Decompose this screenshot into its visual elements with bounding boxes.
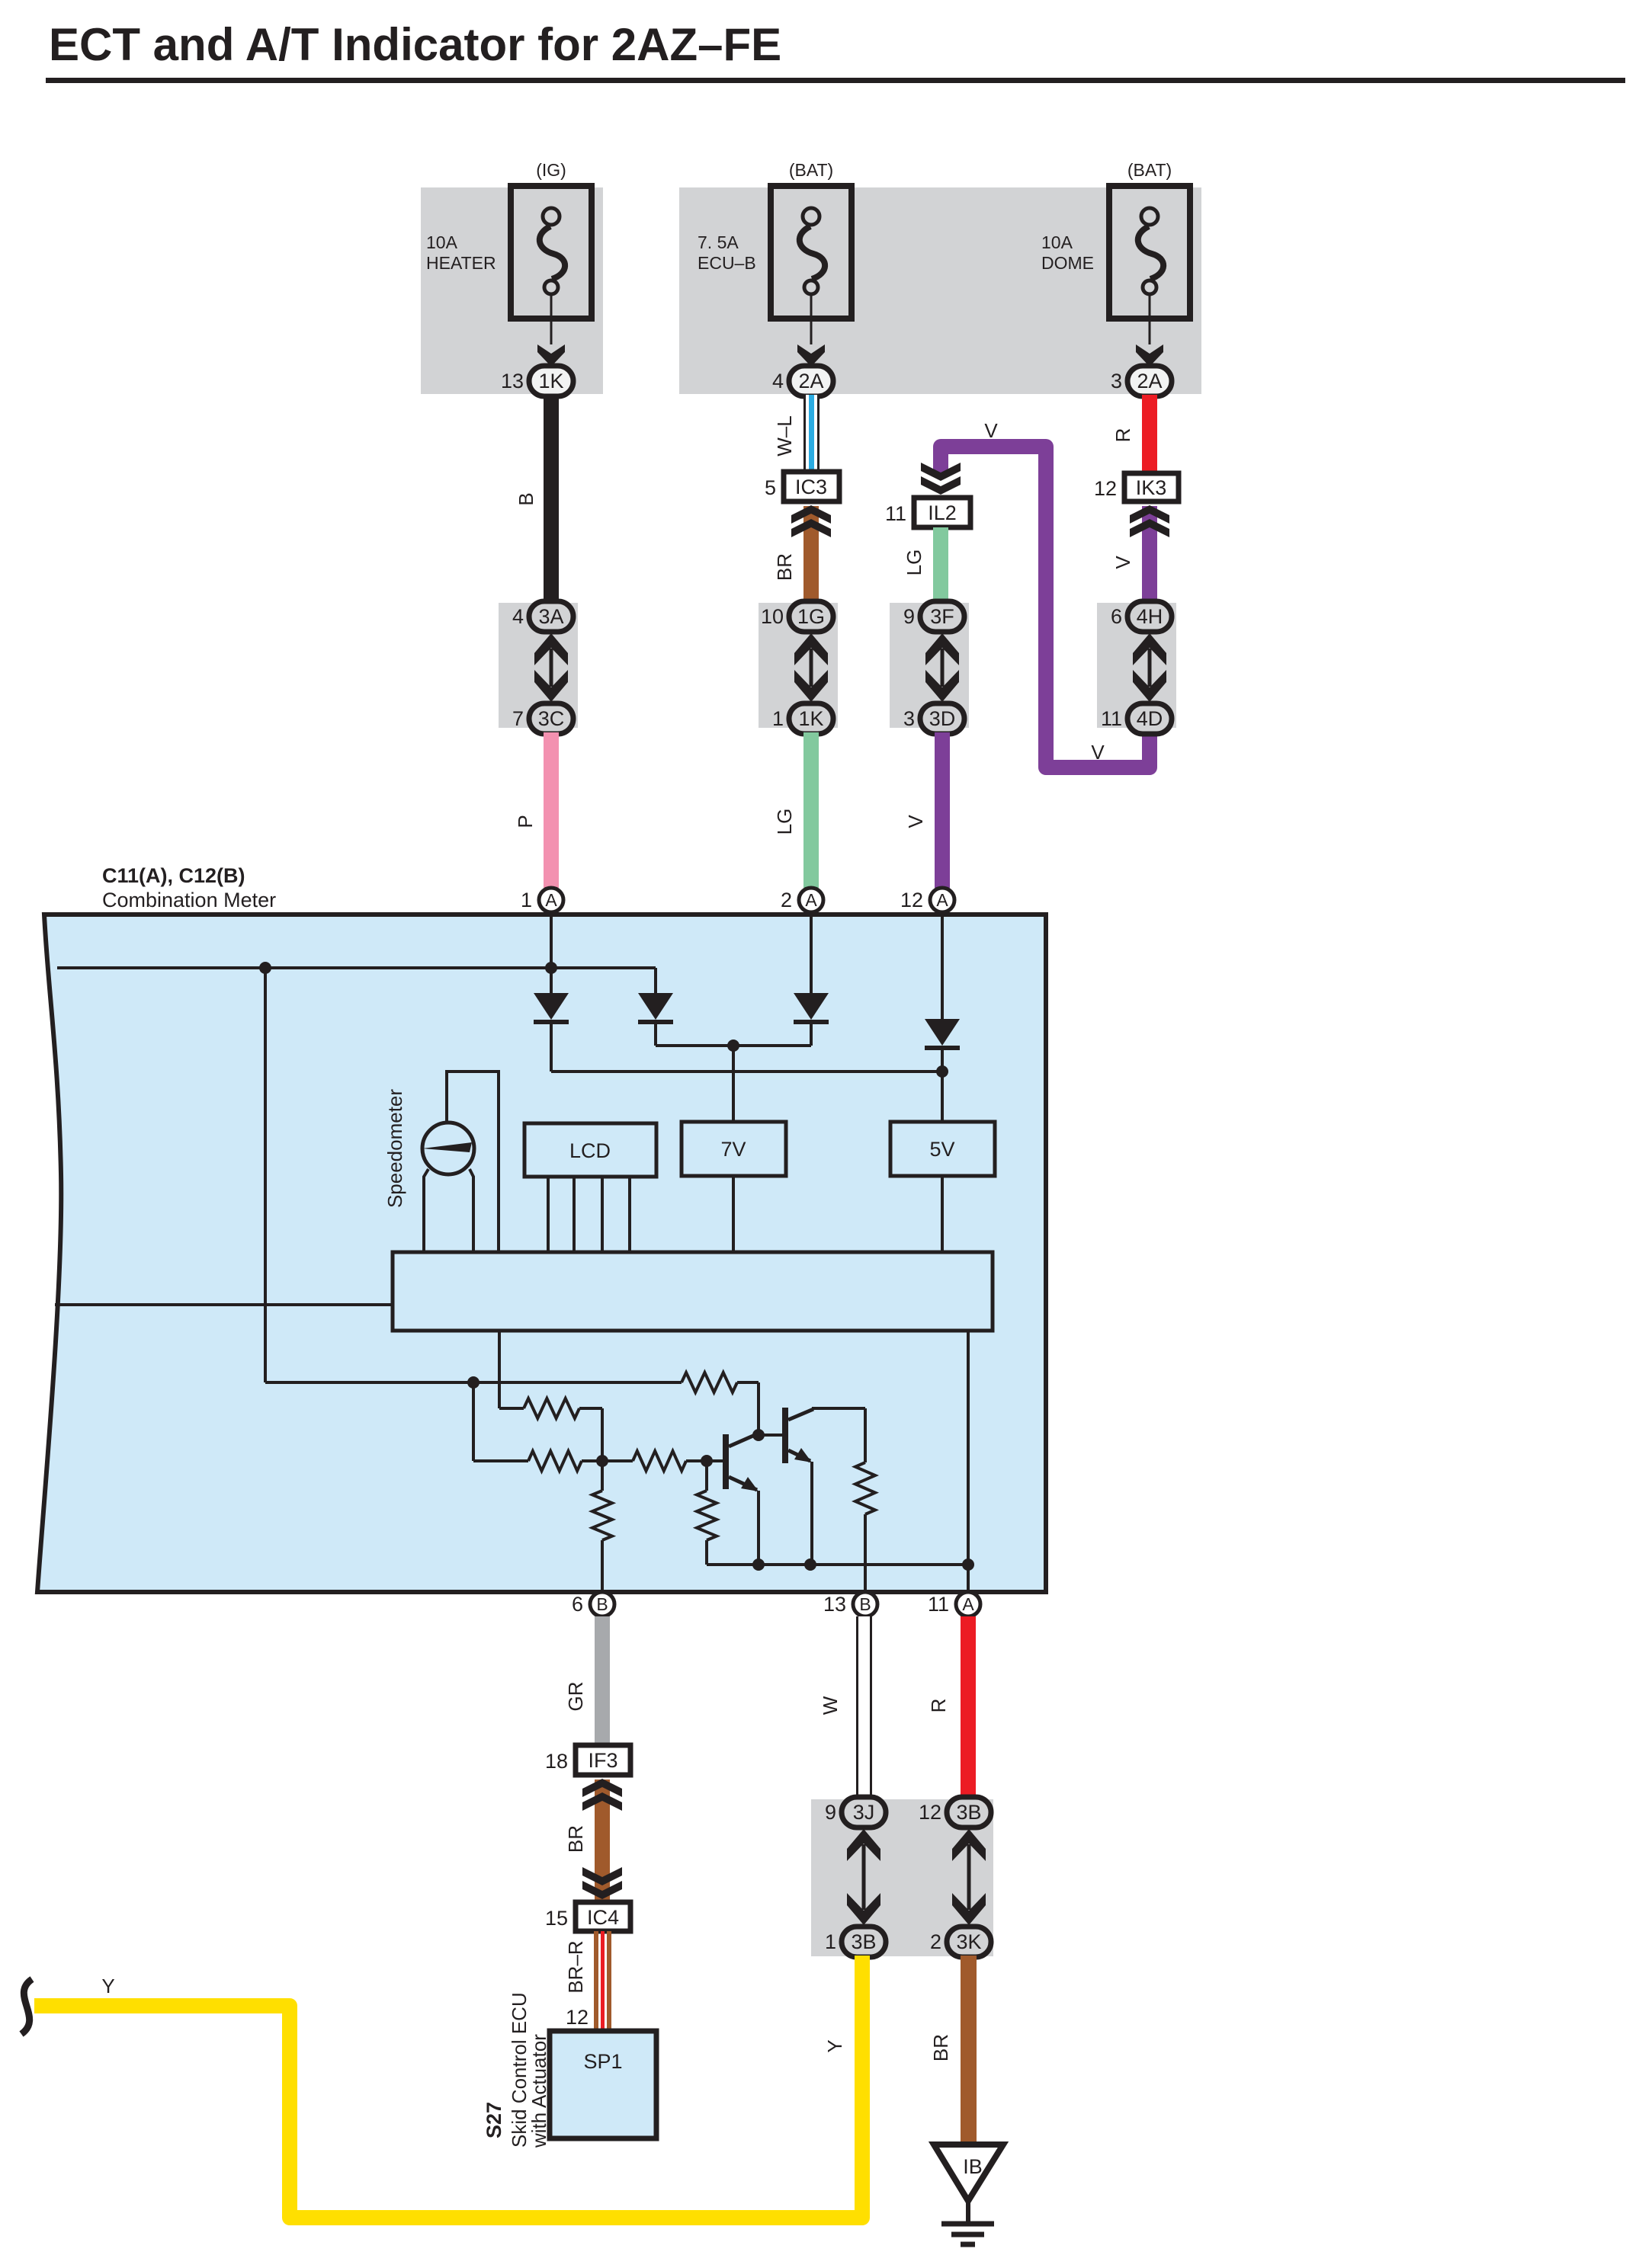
svg-text:IC3: IC3 xyxy=(795,476,827,498)
svg-text:V: V xyxy=(904,815,927,828)
svg-text:IL2: IL2 xyxy=(928,501,957,524)
svg-text:10A: 10A xyxy=(1041,232,1073,252)
connector 1K pin 13 xyxy=(501,366,573,396)
ground stem xyxy=(966,2201,970,2224)
wire R5 leads xyxy=(601,1461,604,1491)
svg-text:3D: 3D xyxy=(929,707,956,730)
LCD box xyxy=(524,1123,656,1177)
svg-text:3C: 3C xyxy=(538,707,565,730)
wire speedometer loop xyxy=(447,1072,499,1252)
wire Q1 base xyxy=(707,1459,723,1462)
wire pin1 down xyxy=(550,912,553,993)
connector 2A pin 4 xyxy=(772,366,833,396)
transistor Q2 xyxy=(782,1408,813,1463)
svg-text:11: 11 xyxy=(885,502,906,525)
junction Q1 collector xyxy=(752,1429,765,1441)
connector 4H/4D box xyxy=(1097,603,1176,728)
fuse 10A HEATER xyxy=(426,186,592,367)
svg-text:7: 7 xyxy=(512,707,524,730)
wire D2-D3 join xyxy=(656,1044,811,1047)
svg-text:BR: BR xyxy=(564,1825,587,1853)
wire Q1C to Q2B xyxy=(759,1434,782,1437)
svg-text:W: W xyxy=(819,1696,842,1715)
svg-text:4H: 4H xyxy=(1137,605,1163,628)
wire R4 row xyxy=(602,1459,633,1462)
svg-text:3K: 3K xyxy=(956,1930,981,1953)
wire vertical x348 xyxy=(264,968,267,1382)
diode D4 xyxy=(925,1019,960,1048)
wire top horizontal xyxy=(57,966,656,969)
svg-text:3A: 3A xyxy=(538,605,563,628)
connector 3F/3D arrow xyxy=(941,649,945,687)
5V pin xyxy=(941,1176,944,1252)
LCD pins xyxy=(547,1177,550,1252)
wire LG (1K to pin2) xyxy=(803,732,819,888)
svg-text:A: A xyxy=(545,890,557,910)
connector 2A pin 3 xyxy=(1111,366,1172,396)
connector 4H/4D oval 4D xyxy=(1101,703,1172,734)
svg-text:A: A xyxy=(962,1594,974,1614)
splice IL2 pin 11 xyxy=(885,498,970,527)
wire Q1 emitter down xyxy=(757,1491,760,1565)
connector 3A/3C oval 3A xyxy=(512,601,573,632)
resistor R5 xyxy=(592,1491,612,1540)
connector 3A/3C arrow xyxy=(550,649,553,687)
connector 4H/4D oval 4H xyxy=(1111,601,1172,632)
svg-text:ECT and A/T Indicator for 2AZ–: ECT and A/T Indicator for 2AZ–FE xyxy=(49,19,781,70)
svg-text:9: 9 xyxy=(903,605,915,628)
wire R6 to pin13 xyxy=(864,1514,867,1592)
connector 1G/1K oval 1G xyxy=(761,601,833,632)
wire D3 down xyxy=(810,1021,813,1046)
resistor R2 xyxy=(524,1398,579,1418)
junction xyxy=(545,962,557,974)
splice IC3 pin 5 xyxy=(765,472,839,501)
svg-text:IK3: IK3 xyxy=(1136,476,1167,499)
wire Y (yellow) xyxy=(34,1956,862,2218)
svg-text:V: V xyxy=(1091,741,1105,764)
svg-text:3: 3 xyxy=(903,707,915,730)
wire elbow to D2 xyxy=(654,968,657,993)
svg-text:3B: 3B xyxy=(851,1930,876,1953)
wire D1 to bus xyxy=(550,1021,553,1072)
svg-text:LG: LG xyxy=(773,809,796,835)
svg-text:A: A xyxy=(805,890,817,910)
svg-text:2: 2 xyxy=(930,1930,941,1953)
connector 3B pin 1 xyxy=(825,1927,886,1957)
meter pin 2 A xyxy=(781,888,823,912)
svg-text:3F: 3F xyxy=(930,605,954,628)
svg-text:1: 1 xyxy=(521,889,532,911)
svg-text:B: B xyxy=(515,492,537,505)
meter pin 12 A xyxy=(900,888,954,912)
wire R (pin11 to 3B) xyxy=(961,1616,976,1800)
chevron up under IF3 xyxy=(582,1779,622,1797)
wire D4 down to 5V xyxy=(941,1047,944,1122)
wire BR (IC3 to 1G) xyxy=(803,506,819,604)
cut squiggle xyxy=(21,1979,32,2034)
fuse panel 2 (ECU-B / DOME) xyxy=(679,187,1201,394)
connector 3F/3D oval 3D xyxy=(903,703,964,734)
svg-text:1K: 1K xyxy=(538,370,563,392)
splice IC4 pin 15 xyxy=(545,1902,630,1931)
connector 3F/3D box xyxy=(890,603,969,728)
connector 3J pin 9 xyxy=(825,1797,886,1828)
svg-text:S27: S27 xyxy=(483,2102,505,2138)
junction xyxy=(804,1558,816,1571)
wire R3 row xyxy=(473,1459,528,1462)
svg-text:LCD: LCD xyxy=(569,1139,611,1162)
wire pin12 down xyxy=(941,912,944,1019)
connector 1G/1K box xyxy=(759,603,838,728)
meter pin 1 A xyxy=(521,888,563,912)
7V pin xyxy=(732,1176,735,1252)
svg-text:B: B xyxy=(596,1594,608,1614)
svg-text:B: B xyxy=(859,1594,871,1614)
svg-text:12: 12 xyxy=(900,889,923,911)
wire pin2 down xyxy=(810,912,813,993)
svg-text:with Actuator: with Actuator xyxy=(528,2034,550,2148)
resistor R4 xyxy=(633,1451,686,1471)
svg-text:13: 13 xyxy=(823,1593,846,1616)
connector 3B/3K arrow xyxy=(967,1844,971,1910)
svg-text:5: 5 xyxy=(765,476,776,499)
7V box xyxy=(682,1122,786,1176)
connector 1G/1K oval 1K xyxy=(772,703,833,734)
ground hatch xyxy=(941,2222,994,2227)
svg-text:DOME: DOME xyxy=(1041,253,1094,273)
svg-text:2A: 2A xyxy=(1137,370,1162,392)
svg-text:7. 5A: 7. 5A xyxy=(698,232,739,252)
svg-text:4: 4 xyxy=(772,370,784,392)
svg-text:11: 11 xyxy=(928,1593,949,1616)
wire V (4D loop to IL2) xyxy=(941,447,1150,767)
svg-text:LG: LG xyxy=(903,549,925,576)
speedometer xyxy=(422,1123,474,1174)
wire drop x621 xyxy=(472,1382,475,1461)
chevron down above IC4 xyxy=(582,1881,622,1899)
svg-text:Combination Meter: Combination Meter xyxy=(102,889,276,911)
wire speedo tap left xyxy=(424,1169,428,1252)
svg-text:1: 1 xyxy=(825,1930,836,1953)
wire R (DOME to IK3) xyxy=(1142,395,1157,475)
wire left mid xyxy=(55,1303,393,1306)
svg-text:7V: 7V xyxy=(720,1138,746,1161)
junction xyxy=(936,1065,948,1078)
svg-text:SP1: SP1 xyxy=(583,2050,622,2073)
svg-text:1G: 1G xyxy=(797,605,825,628)
svg-text:12: 12 xyxy=(919,1801,941,1824)
connector 1G/1K arrow xyxy=(810,649,813,687)
svg-text:18: 18 xyxy=(545,1750,568,1773)
connector box 3J/3B/3K xyxy=(811,1799,993,1956)
svg-text:10: 10 xyxy=(761,605,784,628)
meter pin 6 B xyxy=(572,1592,614,1616)
chevron down above IL2 xyxy=(921,476,961,495)
wire bus to pin11 xyxy=(967,1331,970,1592)
fuse panel 1 (HEATER) xyxy=(421,187,603,394)
wire Q2 emitter down xyxy=(810,1462,813,1565)
svg-text:(BAT): (BAT) xyxy=(789,160,833,180)
connector 3A/3C box xyxy=(499,603,578,728)
resistor R1 xyxy=(682,1373,737,1392)
wire V (3D to pin12) xyxy=(935,732,950,888)
wire LG (IL2 to 3F) xyxy=(933,527,948,604)
connector 3J/3B arrow xyxy=(862,1844,866,1910)
wire W (white) xyxy=(856,1616,872,1800)
svg-text:Y: Y xyxy=(823,2039,846,2052)
meter pin 11 A xyxy=(928,1592,980,1616)
wire B (black) xyxy=(544,395,559,604)
connector 3B pin 12 xyxy=(919,1797,991,1828)
svg-text:BR: BR xyxy=(773,553,796,581)
diode D1 xyxy=(534,993,569,1022)
connector 3F/3D oval 3F xyxy=(903,601,964,632)
chevron up under IK3 xyxy=(1130,505,1169,524)
svg-text:P: P xyxy=(514,815,537,828)
svg-text:R: R xyxy=(1111,428,1134,443)
svg-text:BR–R: BR–R xyxy=(564,1940,587,1993)
resistor R3 xyxy=(528,1451,582,1471)
wire speedo tap right xyxy=(470,1169,473,1252)
cpu bus bar xyxy=(393,1252,993,1331)
wire to 7V xyxy=(732,1046,735,1122)
diode D2 xyxy=(638,993,673,1022)
svg-text:10A: 10A xyxy=(426,232,458,252)
junction xyxy=(962,1558,974,1571)
svg-text:1: 1 xyxy=(772,707,784,730)
svg-text:12: 12 xyxy=(1094,477,1117,500)
wire GR xyxy=(595,1616,610,1746)
skid control ECU box SP1 xyxy=(550,2031,656,2138)
fuse 10A DOME xyxy=(1041,186,1190,367)
ground IB xyxy=(934,2145,1003,2201)
svg-text:IF3: IF3 xyxy=(588,1749,617,1772)
junction xyxy=(596,1455,608,1467)
connector 4H/4D arrow xyxy=(1148,649,1152,687)
svg-text:2A: 2A xyxy=(798,370,823,392)
title underline xyxy=(46,78,1625,83)
svg-text:V: V xyxy=(984,419,998,442)
svg-text:ECU–B: ECU–B xyxy=(698,253,756,273)
junction xyxy=(752,1558,765,1571)
wire BR (IF3-IC4) xyxy=(595,1779,610,1904)
connector 3A/3C oval 3C xyxy=(512,703,573,734)
wire P (3C to pin1) xyxy=(544,732,559,888)
fuse 7.5A ECU-B xyxy=(698,186,852,367)
meter label xyxy=(102,864,276,911)
wire diode bus xyxy=(551,1070,942,1073)
junction xyxy=(259,962,271,974)
svg-text:V: V xyxy=(1111,556,1134,569)
svg-text:2: 2 xyxy=(781,889,792,911)
svg-text:3: 3 xyxy=(1111,370,1122,392)
wire R5 top xyxy=(601,1488,604,1491)
wire BR-R xyxy=(594,1931,611,2032)
wire BR (3K to ground) xyxy=(961,1956,977,2148)
svg-text:5V: 5V xyxy=(929,1138,954,1161)
meter pin 13 B xyxy=(823,1592,877,1616)
svg-text:GR: GR xyxy=(564,1682,587,1712)
transistor Q1 xyxy=(723,1433,760,1491)
wire D2 down xyxy=(654,1021,657,1046)
svg-text:R: R xyxy=(927,1699,950,1713)
wire R5b bottom xyxy=(705,1540,708,1565)
junction xyxy=(727,1039,739,1052)
wire W-L (white/blue) xyxy=(803,395,819,473)
svg-text:C11(A), C12(B): C11(A), C12(B) xyxy=(102,864,245,887)
chevron up under IC3 xyxy=(791,505,831,524)
5V box xyxy=(890,1122,995,1176)
wire emitter rail xyxy=(707,1563,968,1566)
wire Q2 collector xyxy=(812,1407,865,1410)
svg-text:W–L: W–L xyxy=(773,415,796,456)
diode D3 xyxy=(794,993,829,1022)
svg-text:Speedometer: Speedometer xyxy=(383,1089,406,1208)
svg-text:6: 6 xyxy=(572,1593,583,1616)
svg-text:3B: 3B xyxy=(956,1801,981,1824)
resistor R5b xyxy=(697,1491,717,1540)
svg-text:Y: Y xyxy=(101,1975,114,1997)
svg-text:12: 12 xyxy=(566,2006,589,2029)
svg-text:BR: BR xyxy=(929,2034,952,2061)
svg-text:A: A xyxy=(936,890,948,910)
wire V (IK3 to 4H) xyxy=(1142,506,1157,604)
wire R5b top xyxy=(705,1461,708,1491)
svg-text:6: 6 xyxy=(1111,605,1122,628)
svg-text:15: 15 xyxy=(545,1907,568,1930)
svg-text:11: 11 xyxy=(1101,707,1122,730)
svg-text:(BAT): (BAT) xyxy=(1127,160,1172,180)
combination meter box xyxy=(37,915,1046,1592)
svg-text:1K: 1K xyxy=(798,707,823,730)
resistor R6 xyxy=(855,1462,875,1514)
svg-text:IC4: IC4 xyxy=(587,1906,619,1929)
svg-text:(IG): (IG) xyxy=(536,160,566,180)
svg-text:IB: IB xyxy=(963,2155,983,2178)
splice IK3 pin 12 xyxy=(1094,473,1179,501)
splice IF3 pin 18 xyxy=(545,1745,630,1775)
connector 3K pin 2 xyxy=(930,1927,991,1957)
svg-text:HEATER: HEATER xyxy=(426,253,496,273)
wire R1 row xyxy=(265,1381,682,1384)
wire R2 row xyxy=(498,1331,501,1408)
junction xyxy=(701,1455,713,1467)
svg-text:3J: 3J xyxy=(853,1801,875,1824)
svg-text:4: 4 xyxy=(512,605,524,628)
svg-text:13: 13 xyxy=(501,370,524,392)
svg-text:4D: 4D xyxy=(1137,707,1163,730)
svg-text:9: 9 xyxy=(825,1801,836,1824)
junction xyxy=(467,1376,480,1389)
